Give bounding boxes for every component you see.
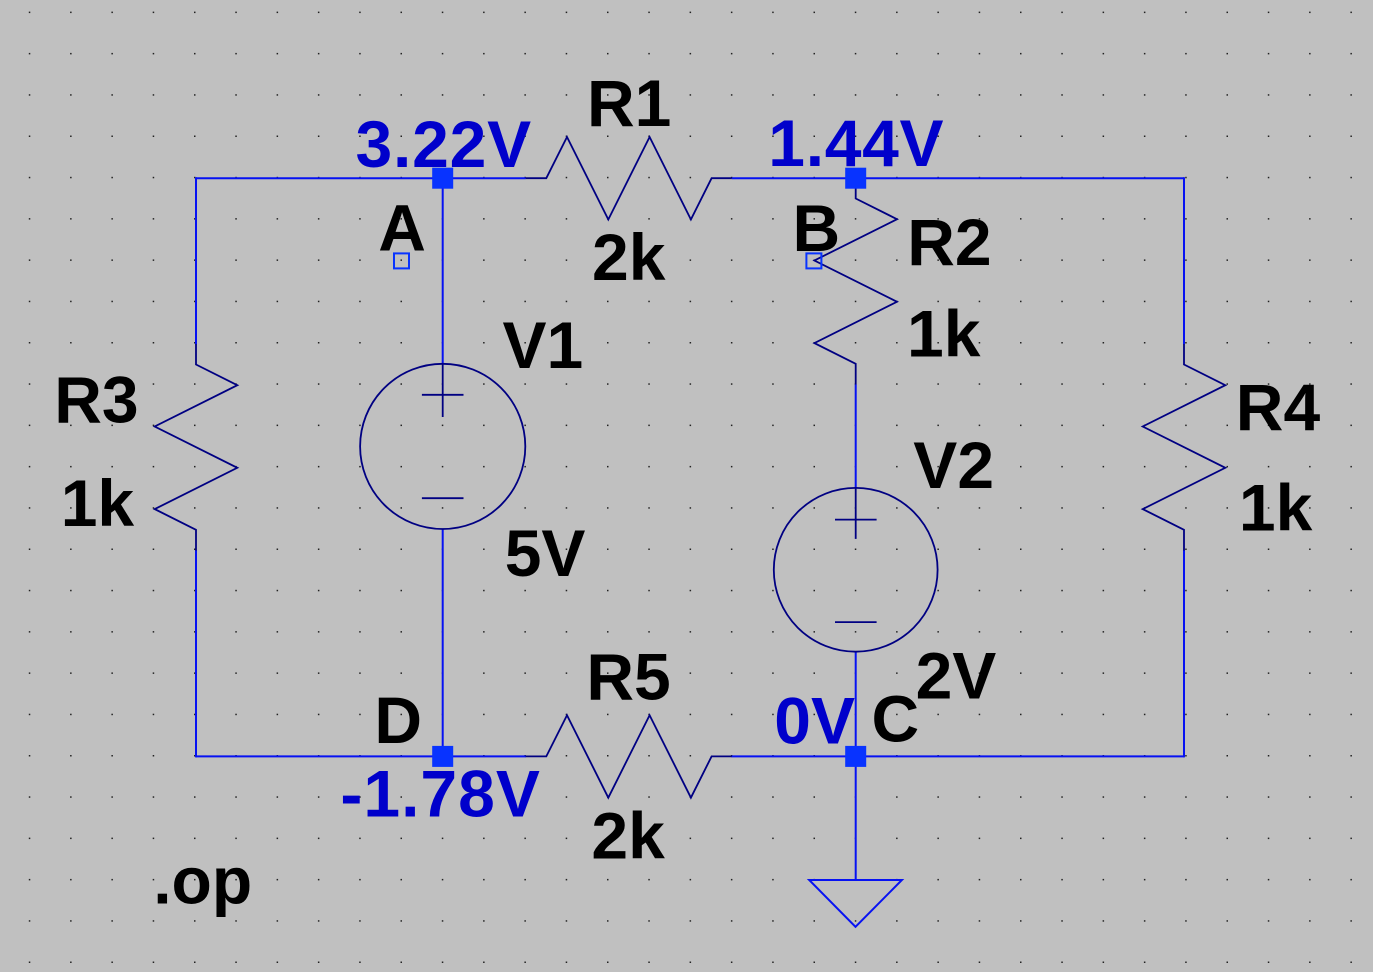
svg-text:R3: R3 — [54, 362, 138, 436]
voltage source V1 circle — [360, 364, 525, 529]
svg-text:1.44V: 1.44V — [768, 106, 944, 180]
svg-text:C: C — [872, 682, 920, 756]
wire left rail lower (R3 pin2 to bottom wire) — [195, 550, 197, 757]
wire V2 bottom to node C — [855, 652, 857, 757]
svg-text:R1: R1 — [587, 66, 671, 140]
svg-text:-1.78V: -1.78V — [340, 756, 540, 830]
node D junction square — [432, 746, 453, 767]
svg-text:2k: 2k — [592, 220, 666, 294]
wire left rail upper (top wire to R3 pin1) — [195, 177, 197, 344]
svg-text:1k: 1k — [907, 297, 981, 371]
node C junction square — [845, 746, 866, 767]
svg-text:V1: V1 — [503, 308, 584, 382]
resistor R1 (horizontal, top) — [526, 137, 732, 220]
resistor R4 (vertical, right rail) — [1143, 344, 1226, 551]
svg-text:2k: 2k — [591, 798, 665, 872]
voltage source V2 internal lead — [855, 488, 857, 539]
svg-text:2V: 2V — [916, 639, 997, 713]
svg-text:R4: R4 — [1236, 370, 1321, 444]
voltage source V2 circle — [774, 488, 938, 652]
voltage source V1 internal lead — [442, 364, 444, 417]
voltage source V1 minus bar — [422, 497, 464, 499]
svg-text:.op: .op — [153, 844, 252, 918]
wire R2 pin2 to V2 top — [855, 385, 857, 489]
node B junction square — [845, 168, 866, 189]
svg-text:D: D — [374, 683, 422, 757]
svg-text:1k: 1k — [1239, 470, 1313, 544]
wire bottom-right horizontal (R5 pin2 through node C to right rail) — [732, 755, 1185, 757]
wire top-left horizontal (node A to R1 pin1) — [196, 177, 526, 179]
voltage source V2 plus bar — [835, 519, 877, 521]
resistor R2 (vertical, below node B) — [814, 178, 897, 384]
svg-text:R2: R2 — [907, 205, 991, 279]
resistor R3 (vertical, left rail) — [155, 344, 238, 551]
svg-text:1k: 1k — [61, 466, 135, 540]
voltage source V1 plus bar — [422, 394, 464, 396]
wire right rail lower (R4 pin2 to bottom wire) — [1183, 550, 1185, 757]
wire node C to ground — [855, 756, 857, 880]
node A label anchor square — [394, 253, 409, 268]
wire bottom-left horizontal (left rail through node D to R5 pin1) — [196, 755, 526, 757]
svg-text:V2: V2 — [913, 428, 994, 502]
svg-text:R5: R5 — [586, 639, 670, 713]
voltage source V2 minus bar — [835, 621, 877, 623]
wire right rail upper (top wire to R4 pin1) — [1183, 177, 1185, 344]
svg-text:A: A — [378, 190, 426, 264]
resistor R5 (horizontal, bottom) — [526, 715, 732, 798]
node A junction square — [432, 168, 453, 189]
svg-text:3.22V: 3.22V — [356, 107, 532, 181]
wire node A to V1 top — [442, 178, 444, 364]
ground symbol — [809, 880, 902, 927]
svg-text:0V: 0V — [774, 684, 855, 758]
wire V1 bottom to node D — [442, 529, 444, 756]
node B label anchor square — [806, 253, 821, 268]
svg-text:B: B — [793, 191, 841, 265]
wire top-right horizontal (R1 pin2 through node B to right rail) — [732, 177, 1184, 179]
svg-text:5V: 5V — [505, 516, 586, 590]
